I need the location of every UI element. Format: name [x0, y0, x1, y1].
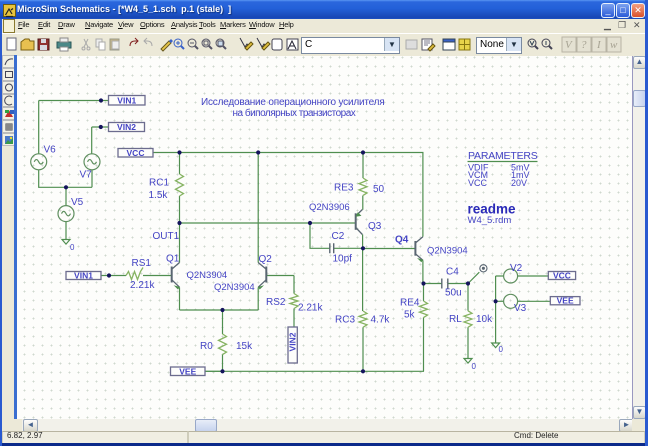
svg-text:0: 0 — [70, 243, 75, 252]
node junction 101,100.5 — [99, 98, 103, 102]
zoom area — [202, 39, 210, 47]
svg-text:10k: 10k — [476, 314, 493, 325]
wire VEE rail — [203, 370, 424, 372]
svg-text:RL: RL — [449, 314, 462, 325]
resistor R0 — [219, 334, 227, 355]
print — [57, 42, 71, 48]
status bar — [0, 431, 648, 443]
parameters block — [468, 150, 538, 188]
save — [38, 39, 49, 50]
svg-text:RC1: RC1 — [149, 178, 169, 189]
edit symbol notebook — [422, 39, 432, 50]
svg-text:OUT1: OUT1 — [153, 231, 180, 242]
capacitor C4 — [442, 279, 448, 289]
svg-text:VIN1: VIN1 — [117, 95, 136, 105]
svg-text:0: 0 — [472, 362, 477, 371]
node junction 179.5,152.5 — [177, 150, 181, 154]
node junction 222.5,371.3 — [220, 369, 224, 373]
wire Q4 base — [363, 248, 416, 250]
resistor RL — [464, 311, 472, 328]
svg-text:RE4: RE4 — [400, 298, 420, 309]
svg-text:PARAMETERS: PARAMETERS — [468, 150, 538, 162]
svg-text:RS2: RS2 — [266, 297, 286, 308]
parameters underline — [468, 161, 538, 163]
left tool palette — [2, 55, 16, 431]
wire RE3 leads — [362, 153, 364, 210]
zoom page — [216, 39, 224, 47]
svg-text:VEE: VEE — [557, 296, 574, 306]
source V5 — [58, 206, 74, 222]
svg-text:Q2N3904: Q2N3904 — [187, 270, 228, 281]
wire Q1 base — [101, 275, 172, 277]
node junction 310,223 — [308, 221, 312, 225]
svg-text:50u: 50u — [445, 288, 462, 299]
wire RC3 bottom lead — [362, 327, 364, 371]
switch terminal bubble — [480, 265, 487, 272]
node VCC right port — [548, 271, 575, 281]
resistor RC1 — [176, 174, 184, 196]
ground RL — [464, 359, 472, 364]
svg-text:Q2N3906: Q2N3906 — [309, 202, 350, 213]
svg-text:1.5k: 1.5k — [149, 190, 169, 201]
wire VCC rail — [153, 152, 424, 154]
svg-text:VCC: VCC — [127, 148, 145, 158]
node junction 363,371.3 — [361, 369, 365, 373]
svg-text:VCC: VCC — [468, 178, 488, 188]
svg-text:2.21k: 2.21k — [298, 303, 323, 314]
svg-text:C4: C4 — [446, 267, 459, 278]
resistor RE3 — [359, 178, 367, 195]
wire VEE port stub — [205, 370, 223, 372]
source V7 — [84, 154, 100, 170]
node VEE left port — [171, 366, 206, 376]
wire Q2 emitter — [257, 288, 259, 311]
wire OUT1 rail — [180, 222, 356, 224]
svg-text:50: 50 — [373, 184, 385, 195]
svg-text:V2: V2 — [510, 263, 523, 274]
svg-text:V3: V3 — [514, 303, 527, 314]
svg-text:Q1: Q1 — [166, 254, 180, 265]
node VIN2 top port — [109, 122, 145, 132]
title bar — [0, 0, 648, 19]
svg-text:4.7k: 4.7k — [371, 315, 391, 326]
pencil draw wire — [161, 41, 171, 51]
capacitor C2 — [330, 243, 334, 253]
svg-text:VIN2: VIN2 — [117, 122, 136, 132]
wire Q4 collector to VCC — [422, 153, 424, 237]
wire Q2 base to RS2 — [266, 276, 294, 294]
node VIN2 rotated port — [288, 327, 298, 363]
ground V5 — [62, 240, 70, 245]
wire R0 leads — [222, 310, 224, 371]
wire Q1 emitter — [179, 288, 181, 311]
wire RE4 leads — [423, 284, 425, 372]
wire V6 V7 bottom bus — [39, 170, 92, 188]
wire emitter bus — [180, 309, 259, 311]
new — [7, 38, 16, 50]
svg-text:RC3: RC3 — [335, 315, 355, 326]
svg-text:V7: V7 — [80, 170, 93, 181]
svg-text:10pf: 10pf — [333, 254, 353, 265]
wire V3 to VEE port — [518, 300, 551, 302]
resistor RS1 — [126, 268, 143, 280]
wire VIN1 feed — [39, 101, 109, 154]
wire Q1 collector — [179, 223, 181, 263]
transistor Q2 — [258, 263, 266, 289]
svg-text:VIN2: VIN2 — [288, 332, 298, 351]
wire C4 right — [448, 283, 468, 285]
svg-text:Q2N3904: Q2N3904 — [214, 282, 255, 293]
svg-text:на биполярных транзисторах: на биполярных транзисторах — [233, 107, 356, 119]
transistor Q1 — [172, 263, 180, 289]
part combo — [301, 37, 400, 54]
mark current mag — [542, 39, 550, 47]
wire V5 stem — [65, 187, 67, 239]
transistor Q4 — [415, 237, 423, 262]
node junction 66,187.3 — [64, 185, 68, 189]
wire RC1 leads — [179, 153, 181, 224]
svg-text:V5: V5 — [71, 197, 84, 208]
wire Q4 emitter — [422, 260, 424, 283]
svg-text:Исследование операционного уси: Исследование операционного усилителя — [201, 97, 385, 108]
node junction 109,275.5 — [107, 273, 111, 277]
node VIN1 left port — [66, 271, 101, 281]
svg-text:V6: V6 — [44, 145, 57, 156]
cut copy paste grayed — [84, 39, 88, 47]
zoom in — [174, 39, 182, 47]
resistor RC3 — [359, 311, 367, 327]
source V2 — [504, 269, 518, 283]
V E I W grayed buttons — [562, 37, 621, 52]
node VEE right port — [550, 296, 580, 306]
svg-text:2.21k: 2.21k — [130, 280, 155, 291]
arrow tool 1 — [240, 38, 250, 47]
svg-text:Q2N3904: Q2N3904 — [427, 246, 468, 257]
white part box — [272, 39, 282, 50]
mark voltage mag — [528, 39, 536, 47]
menu bar — [0, 19, 648, 33]
resistor RE4 — [420, 301, 428, 318]
svg-text:RS1: RS1 — [132, 258, 152, 269]
svg-text:VIN1: VIN1 — [74, 271, 93, 281]
wire Q3 collector node column — [362, 235, 364, 312]
zoom out — [188, 39, 196, 47]
svg-text:5k: 5k — [404, 310, 416, 321]
svg-text:Q2: Q2 — [259, 254, 273, 265]
svg-text:W4_5.rdm: W4_5.rdm — [468, 215, 512, 226]
get part A — [287, 39, 298, 50]
node junction 179.5,223 — [177, 221, 181, 225]
resistor RS2 — [290, 294, 298, 309]
wire V2 V3 common — [496, 276, 504, 343]
node junction 222.5,310 — [220, 308, 224, 312]
svg-text:Q4: Q4 — [395, 235, 409, 246]
undo / redo — [130, 38, 138, 46]
bottom scrollbar — [0, 419, 22, 431]
transistor Q3 — [356, 210, 363, 235]
node VCC top port — [118, 148, 153, 158]
svg-text:C2: C2 — [332, 231, 345, 242]
wire RL leads — [467, 284, 469, 359]
right scrollbar — [632, 56, 633, 419]
svg-text:Q3: Q3 — [368, 221, 382, 232]
svg-text:20V: 20V — [511, 178, 527, 188]
window borders — [0, 443, 648, 446]
svg-text:RE3: RE3 — [334, 183, 354, 194]
wire C4 left — [424, 283, 442, 285]
toolbar — [0, 33, 648, 57]
svg-text:0: 0 — [499, 345, 504, 354]
drawing canvas — [17, 56, 632, 419]
source V6 — [31, 154, 47, 170]
node junction 468,283.5 — [466, 281, 470, 285]
wire C2 right — [334, 247, 363, 249]
yellow grid — [459, 39, 470, 50]
node junction 363,152.5 — [361, 150, 365, 154]
svg-text:VCC: VCC — [553, 271, 571, 281]
wire V2 to VCC port — [518, 275, 549, 277]
node junction 495.6,301.3 — [494, 299, 498, 303]
wire switch arm — [468, 272, 479, 283]
wire Q2 collector to VCC — [257, 153, 259, 263]
svg-text:R0: R0 — [200, 341, 213, 352]
ground V2 V3 — [492, 343, 500, 348]
wire node OUT2 drop — [310, 223, 330, 248]
node junction 423.5,283.5 — [421, 281, 425, 285]
new window — [443, 39, 455, 50]
wire RS2 to VIN2 port — [293, 309, 295, 328]
node junction 363,248.3 — [361, 246, 365, 250]
grayed edit attr — [406, 40, 417, 49]
open — [21, 39, 34, 50]
svg-text:15k: 15k — [236, 341, 253, 352]
node junction 100.8,127 — [99, 125, 103, 129]
arrow tool 2 — [257, 38, 267, 47]
wire VIN2 feed — [92, 127, 109, 154]
node VIN1 top port — [109, 95, 146, 105]
svg-text:VEE: VEE — [179, 366, 196, 376]
node junction 258.2,152.5 — [256, 150, 260, 154]
source V3 — [504, 294, 518, 308]
